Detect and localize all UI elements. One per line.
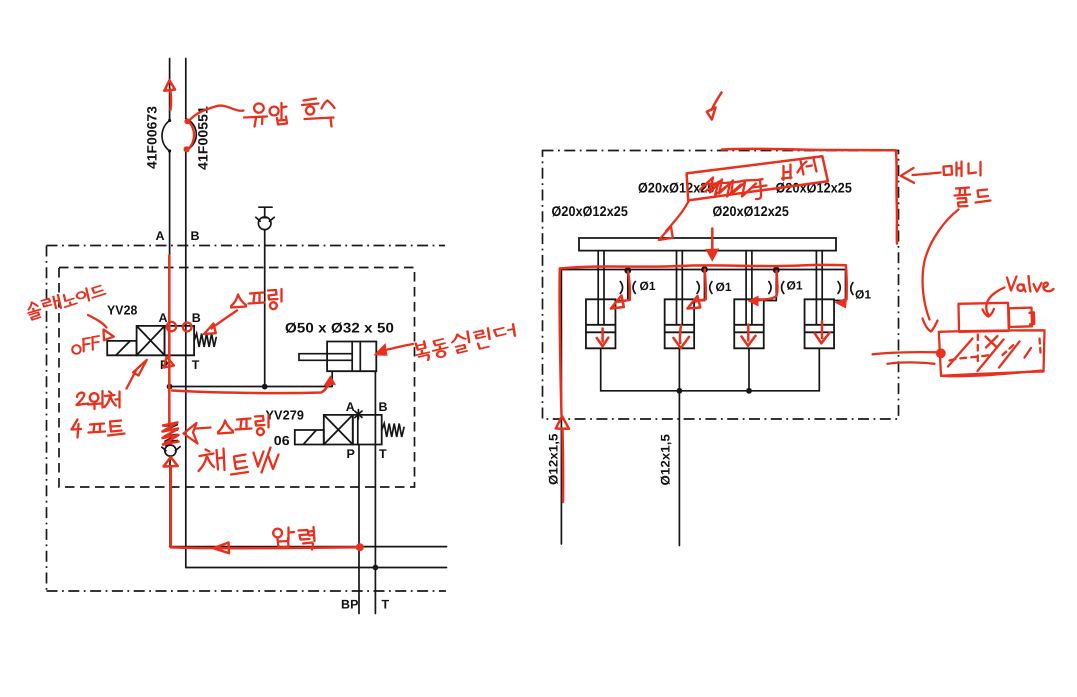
- svg-text:41F00673: 41F00673: [145, 106, 160, 169]
- red arrow up under check valve: [164, 457, 178, 466]
- red hatches in valve body: [948, 339, 1031, 372]
- red turn-down at injector 4 + arrow: [845, 265, 848, 299]
- injector body 1: [586, 299, 616, 348]
- YV279 straight-through position box: [353, 415, 382, 445]
- red valve sketch : side box: [1009, 308, 1035, 327]
- svg-text:B: B: [191, 229, 200, 243]
- YV28 return spring: [194, 334, 216, 348]
- red arrow into port P: [164, 357, 174, 368]
- svg-text:Ø1: Ø1: [787, 279, 803, 293]
- red valve sketch : main body: [939, 330, 1045, 376]
- red drop at orifice 1 + arrow: [619, 272, 630, 302]
- red note 압력 (pressure): [273, 527, 314, 550]
- svg-text:41F00551: 41F00551: [196, 106, 211, 170]
- wire: injector drains to collector: [601, 348, 820, 545]
- red down arrow in injector 3: [742, 325, 756, 346]
- red curved arrow from label box to bar: [666, 202, 689, 232]
- injector body 4: [805, 299, 835, 348]
- injector feed pair 4: [816, 251, 822, 325]
- svg-text:T: T: [382, 598, 390, 612]
- red down arrow in injector 4: [815, 322, 830, 344]
- svg-text:Ø1: Ø1: [716, 280, 732, 294]
- red note 매니 폴드 (manifold): [944, 162, 991, 207]
- double acting cylinder Ø50x Ø32x50 : barrel: [327, 342, 376, 372]
- red circle at YV28 port A: [167, 322, 176, 331]
- svg-text:Ø12x1,5: Ø12x1,5: [547, 434, 561, 486]
- cylinder piston: [352, 342, 360, 372]
- junction dot collector/cup3: [746, 388, 752, 394]
- svg-text:Ø12x1,5: Ø12x1,5: [659, 434, 673, 486]
- svg-text:YV279: YV279: [266, 408, 305, 423]
- wire: left supply drop Ø12x1,5: [560, 270, 562, 545]
- svg-text:Ø1: Ø1: [855, 288, 871, 302]
- wire: T line bottom: [374, 568, 376, 614]
- svg-text:Ø20xØ12x25: Ø20xØ12x25: [552, 203, 629, 219]
- orifice symbol 4: [838, 282, 853, 295]
- svg-text:A: A: [346, 400, 355, 414]
- orifice symbol 3: [769, 282, 784, 294]
- svg-text:06: 06: [274, 433, 290, 448]
- red arrow Valve to sketch: [986, 288, 1004, 315]
- red arrow to cylinder: [387, 344, 414, 350]
- YV279 return spring: [382, 424, 404, 438]
- red flow arrow up (top of line A): [169, 90, 172, 110]
- red note Valve: [1007, 276, 1054, 292]
- injector body 2: [665, 299, 695, 348]
- orifice symbol 2: [697, 282, 712, 294]
- wire: line B vertical (port B / hose 41F00551): [185, 59, 187, 568]
- red down arrow in injector 1: [597, 329, 609, 347]
- svg-text:Ø1: Ø1: [640, 279, 656, 293]
- red trace to cylinder port + arrow up: [172, 382, 330, 394]
- svg-text:A: A: [156, 229, 165, 243]
- manifold dash-dot enclosure: [543, 151, 899, 420]
- red scribbled text inside box: [700, 178, 756, 197]
- red note 4포트 (4 port): [72, 420, 125, 438]
- YV28 straight-through position box: [165, 326, 195, 355]
- junction dot T line: [373, 565, 379, 571]
- svg-text:B: B: [192, 311, 201, 325]
- red trace on manifold top edge and right edge: [722, 149, 897, 244]
- wire: cylinder rod-end port down through YV279: [374, 371, 376, 567]
- svg-text:T: T: [192, 358, 200, 372]
- wire: tank line horizontal: [186, 567, 447, 569]
- wire: line A vertical (port A / hose 41F00673): [169, 59, 171, 547]
- red crossed-out label box (connecting valve): [687, 156, 828, 200]
- injector feed pair 3: [746, 251, 752, 325]
- junction dot collector/cup2: [677, 388, 683, 394]
- red drop at orifice 3 + arrow: [758, 271, 778, 301]
- red down arrow onto bar 2: [711, 229, 714, 252]
- injector feed pair 2: [677, 251, 683, 325]
- injector body 3: [734, 299, 764, 348]
- outer dash-dot enclosure (left circuit): [47, 246, 447, 592]
- wire: BP line from YV279 port P: [358, 445, 360, 614]
- red long curved arrow to valve sketch: [923, 210, 959, 320]
- red valve sketch : pilot box: [959, 303, 1009, 332]
- red note 2위치 (2 position): [77, 391, 120, 409]
- red check arrow top: [712, 93, 722, 110]
- red zigzag over check spring: [163, 423, 179, 445]
- wire: transfer line to cylinder cap port: [170, 371, 333, 386]
- orifice tap 2 wire + junction: [701, 266, 708, 273]
- red trace along pressure line + arrow left: [171, 546, 360, 549]
- svg-text:A: A: [159, 311, 168, 325]
- red note 복동 실린더 (double acting cylinder): [414, 324, 516, 362]
- hose coupling symbol right half: [186, 119, 197, 151]
- svg-text:BP: BP: [341, 598, 359, 612]
- wire: supply line across injectors: [561, 269, 845, 271]
- check valve (vented, top center): [256, 207, 274, 386]
- red drop at orifice 2 + arrow: [696, 270, 706, 302]
- red trace along supply line: [560, 265, 846, 269]
- junction dot node under check valve drop: [262, 384, 268, 390]
- solenoid valve YV279 : solenoid actuator box: [295, 430, 324, 445]
- YV28 crossed-arrows position box: [137, 326, 165, 355]
- red arrow to manifold edge: [913, 173, 941, 176]
- red note 스프링 (spring, lower): [218, 415, 269, 435]
- manifold distribution bar: [579, 238, 836, 251]
- svg-text:Ø20xØ12x25: Ø20xØ12x25: [713, 203, 790, 219]
- check valve with spring (line A, below YV28) : spring: [164, 425, 178, 446]
- YV279 crossed-arrows position box: [324, 415, 353, 445]
- orifice tap 1 wire + junction: [624, 267, 631, 274]
- red trace on left supply drop + up arrow: [560, 269, 562, 416]
- plugged port mark at YV279 A: [355, 410, 362, 419]
- red output lines to valve sketch: [873, 352, 939, 364]
- red note OFF: [70, 334, 102, 355]
- injector feed pair 1: [598, 251, 604, 325]
- svg-text:YV28: YV28: [107, 303, 138, 318]
- svg-text:B: B: [379, 400, 388, 414]
- red arrow to solenoid box: [88, 315, 107, 328]
- red arrow line to check spring: [196, 428, 211, 429]
- inner dash-dot enclosure (valve block): [59, 268, 415, 488]
- red circle at YV28 port B: [183, 323, 192, 332]
- red note 체크 V/V (check valve): [199, 448, 279, 475]
- red arrow to YV28 position box: [127, 371, 137, 389]
- red note 유압 호수 (hydraulic hose): [244, 99, 335, 127]
- svg-text:Ø50 x Ø32 x 50: Ø50 x Ø32 x 50: [285, 320, 394, 336]
- hose coupling symbol left half: [162, 121, 170, 152]
- red note 스프링 (spring, upper): [231, 289, 282, 309]
- junction dot node at line A / transfer line: [167, 384, 173, 390]
- cylinder rod: [299, 354, 352, 361]
- red down arrow in injector 2: [674, 326, 690, 349]
- orifice tap 4 wire: [834, 270, 845, 301]
- svg-text:T: T: [379, 447, 387, 461]
- red note 솔레노이드 (solenoid): [26, 284, 108, 320]
- orifice symbol 1: [620, 282, 635, 294]
- svg-text:P: P: [347, 447, 355, 461]
- red pointer to hose: [189, 106, 244, 122]
- wire: pressure return line: [170, 546, 447, 548]
- red trace down line A to valve: [168, 256, 171, 424]
- red arrow to YV28 spring: [212, 311, 238, 329]
- orifice tap 3 wire + junction: [773, 267, 780, 274]
- solenoid valve YV28 : solenoid actuator box: [107, 341, 136, 355]
- check valve ball+seat: [165, 445, 176, 456]
- red port circle on valve sketch: [937, 350, 945, 358]
